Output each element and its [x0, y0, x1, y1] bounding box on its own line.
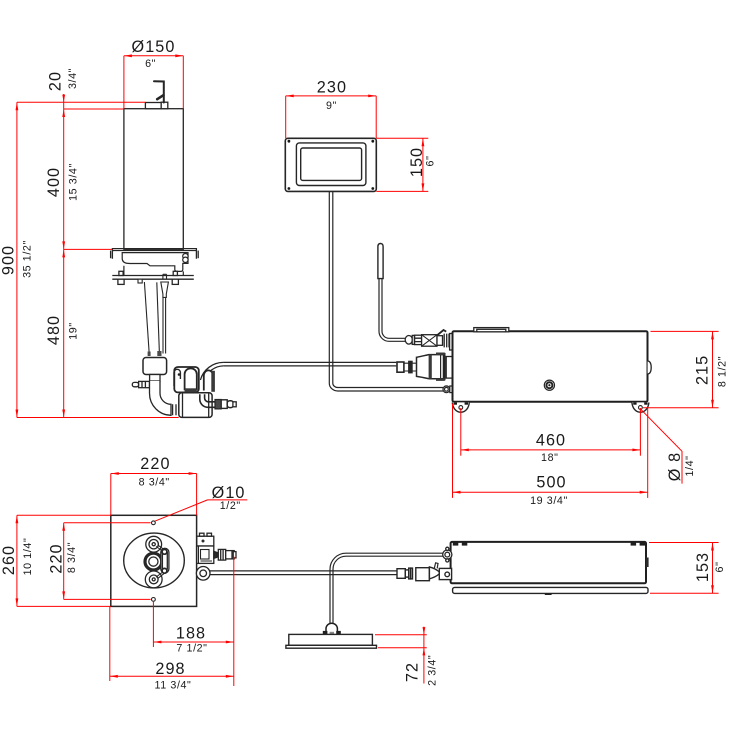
188/298 ext right [233, 557, 235, 687]
svg-text:8 3/4": 8 3/4" [66, 542, 78, 573]
pump housing under tank [122, 253, 188, 276]
153 ext bottom [650, 592, 719, 594]
d10 leader [155, 500, 248, 521]
svg-text:2 3/4": 2 3/4" [426, 655, 438, 686]
svg-text:6": 6" [425, 156, 437, 167]
svg-text:35 1/2": 35 1/2" [22, 240, 34, 278]
svg-text:19 3/4": 19 3/4" [530, 495, 568, 507]
svg-text:19": 19" [68, 322, 80, 339]
toilet flange ellipse [124, 533, 185, 588]
dim 220 left line [63, 523, 65, 600]
arrows 20 (outside) [62, 95, 65, 103]
ext line floor level [17, 417, 179, 419]
middle port circle [145, 553, 162, 570]
arrows 900 [16, 102, 19, 110]
dim 72 line [423, 627, 425, 684]
arrows 260 [16, 515, 19, 523]
d150 ext right [182, 56, 184, 109]
svg-text:150: 150 [408, 147, 426, 177]
clamp bracket with bolts [156, 545, 169, 579]
svg-text:460: 460 [536, 432, 566, 450]
box left foot [452, 402, 469, 412]
left hose barb of valve [132, 381, 149, 387]
top port circle [146, 536, 162, 552]
svg-text:10 1/4": 10 1/4" [22, 538, 34, 576]
dim 260 line [16, 515, 18, 606]
d8 leader [641, 409, 682, 483]
dim 220 top line [111, 473, 197, 475]
control panel [285, 138, 376, 191]
lower pump unit box [451, 542, 646, 583]
panel cable down and to pump unit [329, 192, 452, 393]
arrows 153 [711, 543, 714, 551]
460 ext right [639, 408, 641, 456]
macerator pump body [179, 393, 212, 418]
dim 460 line [461, 449, 641, 451]
dim 900 line [16, 102, 18, 417]
mounting base plate (side view) [112, 271, 194, 284]
svg-text:1/4": 1/4" [684, 455, 696, 476]
150 ext bottom [376, 190, 428, 192]
hose tank to pump unit [223, 362, 396, 366]
mounting plate top view [111, 515, 197, 606]
riser hose fitting and inline pump at box corner [405, 330, 452, 350]
discharge funnel [138, 274, 168, 356]
dim d150 line [124, 55, 183, 57]
thin pipe from lower box to floor flange [330, 553, 445, 624]
72 ext top [375, 634, 427, 636]
motor housing above pump [174, 367, 215, 392]
arrows 460 [461, 449, 469, 452]
pump outlet elbow up [200, 362, 223, 380]
svg-text:298: 298 [155, 660, 185, 678]
arrows 298 [110, 675, 118, 678]
svg-text:480: 480 [45, 315, 63, 345]
svg-text:Ø 8: Ø 8 [666, 452, 684, 481]
svg-text:7 1/2": 7 1/2" [176, 643, 207, 655]
svg-text:18": 18" [541, 452, 558, 464]
svg-text:230: 230 [317, 78, 347, 96]
lower box right bump [646, 558, 649, 568]
220 top ext right [196, 474, 198, 516]
ext line tank top [64, 108, 124, 110]
500 ext left [452, 404, 454, 498]
dim 188 line [153, 641, 233, 643]
box lid handle [474, 328, 509, 332]
arrows 500 [453, 491, 461, 494]
220 top ext left [110, 474, 112, 516]
pump unit box (upper side view) [453, 331, 648, 402]
box right bump [648, 361, 652, 374]
dim 150 line [422, 138, 424, 191]
bottom port circle [145, 571, 162, 588]
box right foot [632, 402, 649, 412]
230 ext right [375, 96, 377, 138]
d150 ext left [123, 56, 125, 109]
svg-text:215: 215 [694, 355, 712, 385]
arrows 220 top [111, 472, 119, 475]
pump unit inlet cone assembly [397, 353, 453, 381]
tank bottom flange [111, 249, 199, 259]
215 ext top [651, 330, 719, 332]
floor flange dome [323, 623, 341, 634]
dim 153 line [712, 543, 714, 594]
arrows 220 left [62, 523, 65, 531]
svg-text:11 3/4": 11 3/4" [155, 680, 192, 692]
svg-text:500: 500 [536, 474, 566, 492]
460 ext left [460, 408, 462, 456]
ext line top (20/900) [17, 101, 145, 103]
150 ext top [376, 137, 428, 139]
valve assembly top view [197, 533, 236, 563]
svg-text:15 3/4": 15 3/4" [68, 163, 80, 201]
72 ext bottom [378, 647, 427, 649]
svg-text:Ø150: Ø150 [132, 38, 176, 56]
tank body [124, 109, 183, 250]
230 ext left [285, 96, 287, 138]
pump right hose barb [215, 400, 236, 409]
banjo fitting on lower box [443, 547, 452, 562]
svg-text:220: 220 [140, 455, 170, 473]
svg-text:188: 188 [176, 625, 206, 643]
500 ext right [647, 408, 649, 498]
plate holes [152, 521, 156, 601]
arrows 400/480 [62, 241, 65, 249]
svg-text:220: 220 [48, 543, 66, 573]
arrows 72 (outside) [423, 627, 426, 635]
svg-text:8 1/2": 8 1/2" [716, 356, 728, 387]
tank top cap [145, 102, 167, 109]
svg-text:260: 260 [0, 545, 18, 575]
dim 20/400/480 line [63, 94, 65, 418]
lower box inlet coupling train [397, 563, 452, 581]
pipe elbow top view [196, 567, 210, 581]
svg-text:6": 6" [714, 562, 726, 573]
solenoid valve block [143, 358, 167, 382]
arrows 150 [422, 138, 425, 146]
svg-text:153: 153 [694, 552, 712, 582]
arrows d150 [124, 54, 132, 57]
svg-text:72: 72 [404, 662, 422, 682]
dim 230 line [286, 95, 377, 97]
dim 500 line [453, 491, 648, 493]
arrows 215 [711, 331, 714, 339]
215 ext bottom [643, 407, 719, 409]
level sensor riser [378, 244, 406, 342]
svg-text:3/4": 3/4" [67, 68, 79, 89]
svg-text:1/2": 1/2" [220, 500, 241, 512]
188 ext left [152, 602, 154, 647]
dim 298 line [110, 675, 234, 677]
lower box feet tabs [453, 542, 645, 545]
discharge elbow [150, 381, 180, 415]
svg-text:6": 6" [145, 58, 156, 70]
arrows 188 [153, 641, 161, 644]
153 ext top [649, 542, 719, 544]
svg-text:9": 9" [326, 100, 337, 112]
lower box mounting strip [453, 587, 648, 595]
298 ext left [109, 606, 111, 681]
dim 215 line [712, 331, 714, 407]
220 left ext bottom [64, 598, 151, 600]
box round port [544, 380, 554, 390]
svg-text:8 3/4": 8 3/4" [139, 476, 170, 488]
svg-text:400: 400 [45, 167, 63, 197]
housing port circles [183, 254, 188, 259]
ext line flange level [64, 248, 113, 250]
260 ext top [17, 514, 111, 516]
pump discharge u-pipe [200, 394, 217, 407]
floor flange disc [286, 634, 377, 648]
svg-text:900: 900 [0, 245, 17, 275]
faucet fitting [154, 81, 164, 102]
220 left ext top [64, 522, 151, 524]
long hose to lower pump unit [210, 571, 397, 575]
260 ext bottom [17, 605, 111, 607]
svg-text:20: 20 [46, 71, 64, 91]
arrows 230 [286, 95, 294, 98]
